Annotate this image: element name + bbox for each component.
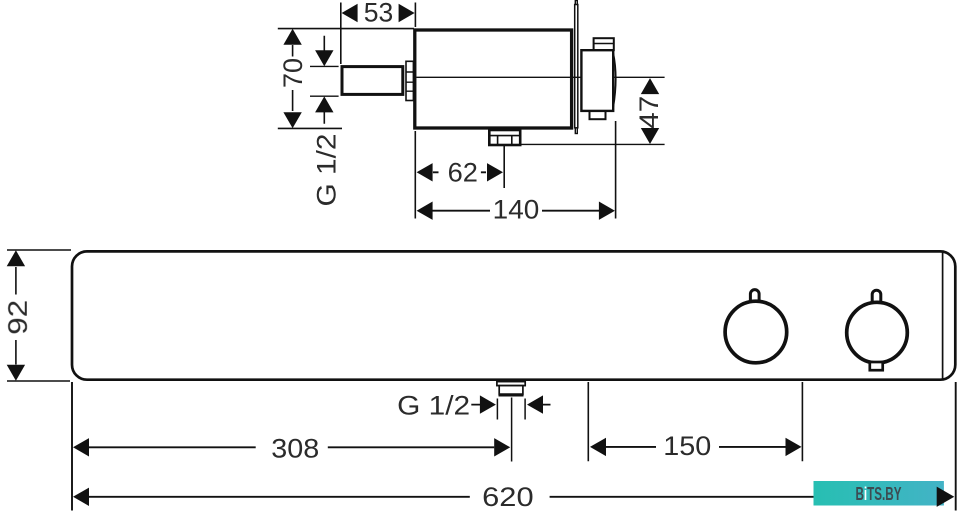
svg-text:70: 70: [278, 58, 308, 88]
svg-text:G 1/2: G 1/2: [312, 134, 342, 207]
svg-text:308: 308: [271, 433, 319, 463]
svg-text:620: 620: [482, 482, 534, 512]
svg-text:62: 62: [448, 157, 478, 187]
svg-text:92: 92: [3, 300, 33, 335]
svg-text:150: 150: [663, 431, 711, 461]
svg-text:BiTS.BY: BiTS.BY: [856, 484, 902, 504]
svg-text:53: 53: [364, 0, 394, 28]
svg-text:47: 47: [634, 96, 664, 129]
svg-text:140: 140: [493, 195, 540, 225]
svg-text:G 1/2: G 1/2: [397, 391, 470, 421]
